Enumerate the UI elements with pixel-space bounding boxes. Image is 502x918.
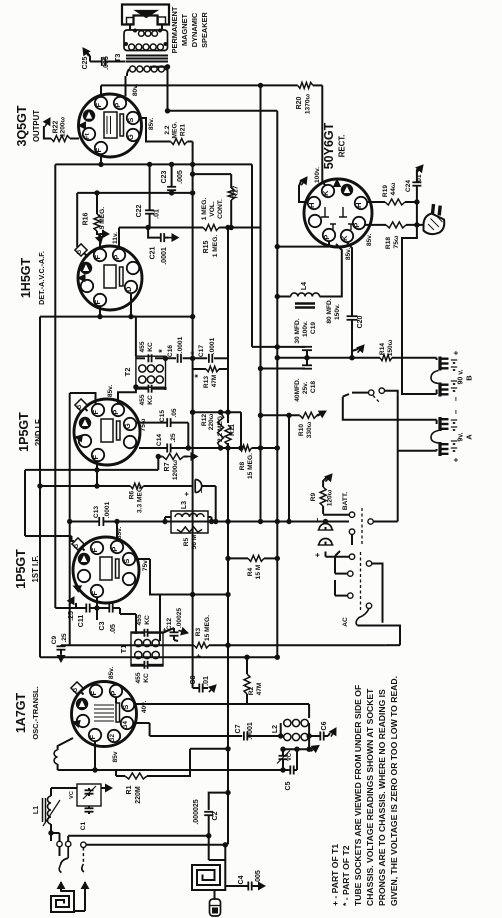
svg-text:47M: 47M [211, 374, 218, 387]
wire [288, 749, 297, 770]
wire y657 [40, 656, 277, 658]
wire [325, 522, 327, 546]
svg-text:1ST I.F.: 1ST I.F. [31, 556, 40, 583]
wire y422 [137, 422, 189, 424]
svg-text:90 v.: 90 v. [458, 369, 465, 384]
wire [131, 316, 136, 318]
svg-text:1 MEG.: 1 MEG. [212, 235, 219, 258]
wire [51, 788, 77, 796]
wire [322, 506, 324, 514]
svg-text:MEG.: MEG. [172, 121, 179, 138]
svg-text:S: S [122, 559, 131, 564]
svg-text:R13: R13 [203, 376, 210, 388]
wire [134, 722, 150, 724]
resistor R10 [300, 412, 317, 418]
capacitor C15 [159, 408, 178, 427]
wire [135, 558, 150, 560]
wire [280, 723, 282, 736]
trimmer T2 top [139, 341, 154, 362]
ground C9 [57, 650, 64, 662]
svg-text:.000025: .000025 [193, 799, 200, 824]
node junction [190, 171, 195, 176]
svg-text:80 MFD.: 80 MFD. [326, 298, 333, 323]
wire y704 [135, 703, 310, 705]
label T3 [113, 54, 122, 63]
node junction [156, 454, 161, 459]
wire [115, 770, 117, 776]
svg-text:+: + [182, 491, 191, 496]
wire [149, 214, 151, 228]
svg-text:.0001: .0001 [104, 501, 111, 518]
resistor R11 [225, 425, 231, 445]
wire [187, 141, 192, 143]
svg-text:.0001: .0001 [209, 337, 216, 354]
wire [384, 391, 397, 395]
arrow R10 [317, 411, 326, 417]
wire [150, 66, 168, 68]
wire [96, 193, 98, 214]
svg-text:2ND I.F.: 2ND I.F. [34, 418, 43, 446]
svg-text:R21: R21 [180, 124, 187, 136]
arrow C24 [416, 165, 423, 182]
ground VC [309, 746, 319, 753]
wire y412 [193, 411, 241, 413]
label R16 [83, 207, 107, 231]
ground C8 [209, 685, 216, 692]
svg-text:PRONGS ARE TO CHASSIS. WHERE: PRONGS ARE TO CHASSIS. WHERE NO READING … [377, 689, 387, 906]
label 75v V4 [142, 559, 149, 572]
label R5 [183, 534, 198, 549]
svg-text:150ω: 150ω [387, 339, 394, 356]
wire [219, 227, 260, 229]
svg-text:.005: .005 [103, 56, 110, 70]
tube V2 1H5GT [78, 246, 142, 310]
tube V5 1A7GT [72, 682, 137, 747]
label R1 [126, 785, 142, 803]
wire 9v low [373, 395, 436, 522]
wire B+ top [101, 84, 298, 86]
wire [225, 885, 248, 887]
wire bus x69 [69, 393, 71, 645]
wire [116, 775, 125, 777]
wire C22 drop [149, 164, 151, 210]
svg-text:1 MEG.: 1 MEG. [201, 198, 208, 221]
ac plug [423, 204, 444, 234]
svg-text:15 M: 15 M [255, 564, 262, 579]
resistor R13 [206, 366, 219, 372]
node junction [163, 356, 196, 361]
label C20 [326, 298, 341, 323]
svg-text:C3: C3 [99, 621, 106, 630]
wire [246, 694, 248, 704]
svg-text:K: K [321, 190, 330, 196]
wire [118, 387, 136, 404]
svg-text:C6: C6 [321, 721, 328, 730]
label T2 [123, 368, 132, 377]
wire bus x228 [227, 228, 229, 845]
label C2 [193, 799, 219, 824]
antenna arrow2 [81, 882, 88, 892]
wire [165, 517, 171, 522]
svg-text:R11: R11 [229, 424, 236, 436]
wire [96, 470, 98, 486]
wire [96, 608, 98, 620]
capacitor C12 [160, 608, 183, 636]
capacitor C25 [102, 57, 126, 66]
wire y835 [68, 835, 209, 837]
capacitor C14 [156, 433, 177, 452]
node junction [92, 767, 285, 772]
label 1H5GT [19, 251, 46, 305]
svg-text:85v.: 85v. [116, 527, 123, 540]
wire [96, 598, 98, 609]
node junction [225, 556, 280, 561]
label 85v S [148, 118, 155, 131]
wire [358, 626, 401, 646]
label 100v [314, 167, 321, 183]
wire [150, 559, 160, 595]
switch SW4 [348, 554, 372, 609]
ground L1 [101, 784, 112, 791]
wire y164 [55, 163, 252, 165]
svg-text:75v.: 75v. [142, 559, 149, 572]
wire x215 [215, 486, 217, 522]
svg-text:P: P [113, 103, 122, 108]
svg-text:F: F [90, 548, 99, 553]
capacitor C19 [301, 347, 312, 358]
capacitor C5 [285, 766, 294, 791]
svg-text:P: P [322, 235, 331, 240]
node junction [275, 344, 280, 349]
wire [159, 595, 161, 642]
label R7 [164, 459, 179, 480]
svg-text:C5: C5 [285, 781, 292, 790]
label R22 [53, 116, 67, 137]
wire [115, 697, 117, 703]
wire [208, 836, 210, 860]
wire [386, 644, 400, 646]
svg-text:C2: C2 [212, 811, 219, 820]
resistor R19 [385, 199, 405, 205]
node junction [165, 108, 170, 113]
battery 90vB [431, 350, 474, 401]
label R17 [233, 185, 240, 198]
label L3 [181, 501, 188, 509]
wire y645 [61, 644, 386, 646]
wire [322, 85, 326, 186]
svg-text:85v.: 85v. [366, 234, 373, 247]
svg-text:C24: C24 [405, 180, 412, 192]
svg-text:F: F [93, 300, 102, 305]
node junction [275, 355, 310, 360]
label R12 [201, 413, 215, 430]
svg-text:C17: C17 [198, 345, 205, 357]
wire plug down [402, 225, 437, 394]
svg-text:C19: C19 [310, 322, 317, 334]
node junction [94, 605, 99, 610]
svg-text:−: − [452, 396, 461, 401]
svg-text:.0001: .0001 [177, 336, 184, 353]
label R11 [217, 414, 236, 442]
svg-text:C15: C15 [159, 410, 166, 422]
label R21 [164, 121, 187, 138]
label 80v [132, 84, 139, 97]
svg-text:L3: L3 [181, 501, 188, 509]
label L1 [33, 806, 40, 814]
wire x158 [157, 457, 159, 470]
svg-text:C16: C16 [167, 345, 174, 357]
wire [149, 723, 151, 736]
wire [130, 24, 162, 30]
label L2 [272, 725, 279, 733]
svg-text:F: F [88, 735, 97, 740]
svg-text:1370ω: 1370ω [305, 93, 312, 114]
wire [67, 836, 69, 842]
tube V4 edge arrow [74, 586, 82, 592]
transformer T2 [136, 356, 166, 387]
label T1 [119, 645, 128, 654]
ground C6 [328, 728, 336, 737]
ground C4 [252, 882, 265, 889]
label 1P5GT-1 [14, 549, 40, 589]
svg-text:F: F [94, 103, 103, 108]
battery 9vA [431, 409, 474, 462]
wire x241 [240, 412, 242, 448]
arrow R7 [184, 453, 198, 460]
svg-text:11v.: 11v. [112, 232, 119, 244]
label R6 [129, 485, 144, 513]
svg-text:1200ω: 1200ω [60, 116, 67, 137]
wire [323, 514, 349, 516]
svg-text:1200ω: 1200ω [172, 459, 179, 480]
svg-text:R16: R16 [83, 212, 90, 225]
svg-text:.01: .01 [203, 676, 210, 686]
svg-text:80v.: 80v. [132, 84, 139, 97]
svg-text:455: 455 [139, 394, 146, 405]
wire C2 [209, 793, 228, 810]
svg-text:G: G [73, 688, 79, 693]
node junction [48, 830, 53, 835]
label 11v [112, 232, 119, 244]
svg-text:220M: 220M [135, 786, 142, 804]
ground C25 [83, 48, 90, 56]
label 85v V5b [112, 751, 119, 762]
node junction [190, 410, 231, 415]
svg-text:30 MFD.: 30 MFD. [294, 318, 301, 343]
label R9 [310, 489, 334, 506]
node junction [169, 162, 174, 196]
svg-text:C23: C23 [161, 170, 168, 183]
svg-text:455: 455 [135, 672, 142, 683]
svg-text:*: * [193, 374, 203, 378]
wire [308, 723, 310, 749]
wire [96, 231, 98, 235]
svg-text:44ω: 44ω [390, 182, 397, 195]
wire [308, 704, 310, 718]
svg-text:−: − [197, 488, 206, 493]
svg-text:85v.: 85v. [148, 118, 155, 131]
node junction [147, 162, 195, 167]
switch blade2 [82, 848, 84, 873]
tube V3 1P5GT-2 [74, 399, 140, 465]
node junction [258, 413, 263, 418]
svg-text:H: H [354, 202, 363, 207]
svg-text:T2: T2 [123, 368, 132, 377]
jack J [182, 480, 206, 497]
svg-text:VC: VC [69, 791, 75, 799]
wire y594 [160, 594, 228, 596]
svg-text:455: 455 [139, 341, 146, 352]
label 1A7GT [14, 686, 40, 739]
svg-text:G2: G2 [109, 734, 116, 743]
wire [351, 326, 353, 358]
tube V5 edge arrow [73, 721, 81, 728]
svg-text:KC: KC [144, 615, 151, 625]
svg-text:S: S [126, 118, 135, 123]
tube V6 edge arrow [334, 180, 341, 187]
node junction [145, 225, 233, 230]
wire [192, 595, 194, 689]
resistor R2 [244, 674, 250, 694]
svg-text:R8: R8 [239, 461, 246, 470]
capacitor C1 [80, 806, 94, 830]
wire avc [25, 536, 74, 541]
node junction [94, 467, 99, 472]
node junction [223, 842, 228, 847]
label BATT [342, 492, 349, 510]
arrow R9 [323, 474, 332, 487]
capacitor C11 [80, 604, 97, 613]
svg-text:.005: .005 [255, 870, 262, 884]
wire [208, 815, 210, 836]
svg-text:H: H [307, 202, 316, 207]
wire [214, 890, 216, 899]
capacitor C4 [238, 870, 262, 890]
label 1P5GT-2 [17, 412, 43, 452]
wire [100, 85, 102, 96]
svg-text:.0001: .0001 [247, 722, 254, 740]
node junction [258, 83, 263, 88]
svg-text:KC: KC [147, 342, 154, 352]
wire [51, 833, 60, 841]
wire y368 C18 [261, 368, 302, 370]
svg-text:R20: R20 [296, 96, 303, 109]
svg-text:F: F [90, 591, 99, 596]
wire y469 [25, 469, 158, 471]
note 1 [353, 685, 363, 906]
wire [224, 845, 226, 860]
wire [44, 126, 51, 139]
note 2 [365, 688, 375, 906]
wire [163, 628, 174, 640]
label R2 [248, 682, 263, 695]
label R19 [382, 182, 397, 197]
svg-text:F: F [94, 148, 103, 153]
wire y357 [277, 357, 352, 359]
note 3 [377, 689, 387, 906]
svg-text:PERMANENT: PERMANENT [170, 6, 179, 53]
wire [416, 186, 418, 225]
ac hook [356, 609, 369, 626]
wire bus x277 [276, 111, 278, 657]
wire [138, 118, 171, 142]
capacitor C23 [167, 164, 176, 190]
node junction [190, 592, 231, 597]
node junction [67, 519, 280, 524]
svg-text:*: * [189, 351, 199, 355]
tube V1 edge arrow [79, 122, 86, 129]
wire y347 C19 [277, 346, 301, 348]
ground R16 [96, 233, 103, 243]
svg-text:220ω: 220ω [208, 413, 215, 430]
capacitor C21 [148, 228, 164, 243]
svg-text:R4: R4 [247, 567, 254, 576]
svg-text:.01: .01 [154, 209, 161, 219]
capacitor C22 [145, 210, 154, 213]
wire [99, 307, 101, 317]
wire [60, 645, 62, 646]
wire [335, 551, 348, 574]
label R10 [298, 421, 313, 438]
svg-text:+: + [194, 653, 203, 658]
node junction [414, 199, 419, 204]
wire y486 [40, 485, 216, 487]
resistor R17 [228, 188, 234, 200]
svg-text:D: D [124, 286, 133, 292]
loop antenna LOOP1 [51, 891, 74, 912]
choke L4 [291, 293, 320, 297]
svg-text:9v.: 9v. [458, 432, 465, 441]
svg-text:C14: C14 [156, 434, 163, 446]
svg-text:VOL.: VOL. [209, 201, 216, 217]
svg-text:P: P [110, 547, 119, 552]
label L4 [301, 282, 308, 290]
capacitor C6 [309, 732, 328, 741]
svg-text:2.2: 2.2 [164, 125, 171, 134]
wire L4 left [277, 296, 290, 298]
node junction [165, 64, 170, 69]
wire y369 [193, 368, 228, 370]
wire [352, 392, 369, 394]
svg-text:.5 MEG.: .5 MEG. [99, 207, 106, 231]
wire [392, 358, 437, 360]
switch blade1 [59, 847, 68, 873]
wire y415 R10 [261, 414, 300, 416]
wire [347, 243, 352, 311]
svg-text:L2: L2 [272, 725, 279, 733]
L1 adjust arrow [43, 800, 60, 826]
svg-text:C7: C7 [235, 724, 242, 733]
svg-text:25v.: 25v. [302, 382, 309, 395]
node junction [206, 833, 211, 838]
node junction [225, 746, 230, 751]
node junction [186, 445, 280, 450]
wire y770 [58, 769, 289, 771]
label R3 [194, 615, 211, 658]
svg-text:C25: C25 [82, 56, 89, 69]
wire [246, 657, 248, 674]
wire [130, 294, 132, 317]
label 85v V3 [107, 385, 114, 398]
ground C12 [174, 628, 188, 641]
label R13 [193, 374, 218, 388]
wire R18 line [366, 224, 424, 226]
transformer T1 [131, 632, 163, 666]
capacitor C7 [235, 722, 254, 740]
svg-text:A: A [465, 434, 474, 440]
svg-text:15 MEG.: 15 MEG. [204, 615, 211, 641]
svg-text:R22: R22 [53, 120, 60, 133]
